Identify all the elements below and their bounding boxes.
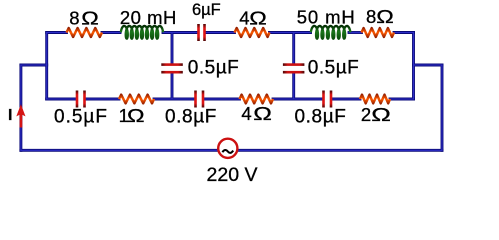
svg-text:50 mH: 50 mH xyxy=(297,7,356,28)
svg-text:Ω: Ω xyxy=(81,9,99,29)
svg-text:0.8µF: 0.8µF xyxy=(295,107,347,128)
svg-text:8: 8 xyxy=(69,8,79,29)
svg-text:Ω: Ω xyxy=(253,103,272,124)
svg-text:2: 2 xyxy=(361,104,371,125)
svg-text:4: 4 xyxy=(239,7,249,28)
svg-text:Ω: Ω xyxy=(376,7,394,27)
svg-text:6µF: 6µF xyxy=(192,1,221,19)
svg-text:0.8µF: 0.8µF xyxy=(165,107,217,128)
svg-text:Ω: Ω xyxy=(249,9,267,29)
svg-text:Ω: Ω xyxy=(371,104,391,125)
svg-text:I: I xyxy=(8,107,12,124)
svg-text:8: 8 xyxy=(366,6,376,27)
svg-text:0.5µF: 0.5µF xyxy=(54,107,108,128)
svg-text:20 mH: 20 mH xyxy=(120,7,177,28)
svg-text:0.5µF: 0.5µF xyxy=(308,58,359,79)
svg-text:0.5µF: 0.5µF xyxy=(188,58,239,79)
svg-text:220 V: 220 V xyxy=(207,164,258,184)
svg-text:Ω: Ω xyxy=(127,106,145,126)
svg-text:4: 4 xyxy=(241,103,251,124)
